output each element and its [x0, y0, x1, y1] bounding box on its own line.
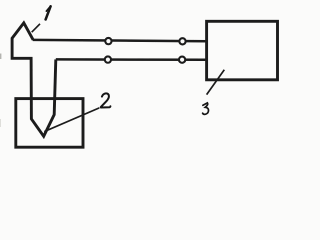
wire top (holder to box 3)	[33, 40, 207, 41]
power source box 3	[207, 21, 278, 80]
connector circle D (bottom wire right)	[179, 57, 185, 63]
wire bottom (holder stem to box 3)	[56, 58, 207, 61]
connector circle C (top wire right)	[179, 38, 185, 44]
leader line for label 2	[44, 108, 99, 132]
label 1	[46, 6, 51, 19]
leader line for label 1	[32, 24, 40, 32]
label 2	[101, 93, 111, 107]
connector circle B (bottom wire left)	[105, 56, 111, 62]
workpiece box 2	[16, 99, 83, 148]
label 3	[203, 103, 209, 114]
connector circle A (top wire left)	[105, 38, 111, 44]
electrode holder 1 body outline	[12, 23, 56, 136]
leader line for label 3	[207, 70, 225, 95]
background paper	[0, 0, 295, 162]
